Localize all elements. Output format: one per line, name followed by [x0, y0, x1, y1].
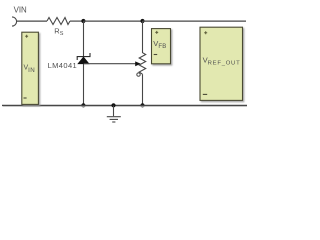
minus terminal mark V_IN [24, 97, 27, 99]
wire: pot top node to right edge (VREF_OUT net) [143, 20, 247, 22]
plus terminal mark V_FB [155, 31, 158, 34]
label LM4041 [48, 61, 78, 70]
wire: node A to pot top node [84, 20, 143, 22]
plus terminal mark V_REF_OUT [204, 31, 207, 34]
wire: LM4041 anode down to bottom rail [83, 64, 85, 106]
ground [107, 106, 121, 123]
junction: ground node on rail [111, 103, 115, 107]
source V_IN (annotation box) [22, 32, 39, 104]
node V_FB (annotation box) [152, 29, 171, 64]
zener diode U1 LM4041 shunt reference [77, 53, 90, 64]
node V_REF_OUT (annotation box) [200, 27, 243, 100]
junction: anode at bottom rail [81, 103, 85, 107]
wire: VIN terminal to resistor RS [17, 20, 47, 22]
resistor RS [47, 18, 70, 25]
junction node A (top of LM4041) [81, 19, 85, 23]
bottom rail wire (ground net) [2, 105, 247, 106]
minus terminal mark V_FB [154, 54, 158, 56]
wire: node A down to LM4041 cathode [83, 21, 85, 57]
potentiometer R1 (vertical zigzag) [139, 53, 146, 74]
minus terminal mark V_REF_OUT [203, 93, 207, 95]
label VIN [14, 5, 27, 14]
wire: potentiometer bottom to rail [142, 74, 144, 105]
svg-text:VIN: VIN [14, 5, 27, 14]
wire: pot top node down to potentiometer [142, 21, 144, 53]
wire: FB pin to potentiometer wiper [84, 61, 141, 66]
svg-text:RS: RS [54, 26, 63, 37]
wire: RS to node A [70, 20, 84, 22]
junction: pot top node [140, 19, 144, 23]
svg-text:LM4041: LM4041 [48, 61, 78, 70]
junction: pot bottom at rail [140, 103, 144, 107]
label RS [54, 26, 63, 37]
wiper open-terminal circle [137, 73, 140, 76]
plus terminal mark V_IN [25, 35, 28, 38]
node VIN input terminal [12, 17, 17, 26]
